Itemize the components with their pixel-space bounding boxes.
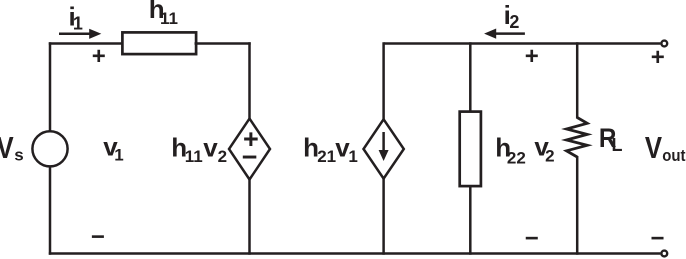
svg-text:1: 1 [73,14,83,34]
svg-text:1: 1 [348,147,357,166]
svg-text:L: L [612,135,623,155]
dependent voltage source h11v2 diamond [229,119,270,180]
wire: vertical below RL [576,156,579,255]
svg-text:s: s [14,145,23,164]
svg-text:−: − [91,224,105,251]
wire: vertical above RL [576,42,579,118]
svg-text:11: 11 [160,9,178,28]
wire: vertical below current source h21v1 [382,178,385,255]
svg-text:21: 21 [317,147,336,166]
svg-text:11: 11 [185,147,203,166]
wire: h11 to node at x=249.5 [195,42,251,45]
wire: bottom horizontal rail [49,252,661,255]
svg-text:2: 2 [545,146,554,165]
wire: top-right horizontal rail [384,42,661,45]
svg-text:+: + [651,44,665,71]
dependent current source h21v1 diamond [364,119,404,178]
svg-text:−: − [525,225,539,252]
wire: vertical above current source h21v1 [382,42,385,120]
svg-text:out: out [662,147,686,165]
wire: vertical above dependent source h11v2 [248,42,251,120]
resistor h22 (vertical box) [460,112,481,187]
svg-text:22: 22 [507,148,526,167]
svg-text:+: + [92,43,106,70]
svg-text:V: V [645,131,662,166]
wire: vertical above resistor h22 [469,42,472,113]
svg-text:v: v [203,132,218,162]
resistor h11 [122,32,196,54]
wire: left vertical upper (Vs top) [49,42,52,131]
svg-text:−: − [242,142,258,172]
wire: left vertical lower (Vs bottom) [49,167,52,255]
resistor RL zigzag [567,118,588,158]
wire: vertical below dependent source h11v2 [248,179,251,255]
svg-text:1: 1 [114,145,123,164]
svg-text:−: − [650,225,664,252]
source Vs circle [32,131,67,166]
svg-text:+: + [525,43,539,70]
wire: vertical below resistor h22 [469,185,472,255]
output terminal bottom (open circle) [661,251,667,257]
arrow i2 (current into port 2) [496,32,525,35]
wire: top-left horizontal (source to h11) [49,42,124,45]
output terminal top (open circle) [661,41,667,47]
svg-text:2: 2 [509,12,519,32]
arrow i1 (current into port 1) [59,33,91,36]
arrow inside h21v1 (downward) [382,132,385,152]
svg-text:2: 2 [218,147,227,166]
svg-text:V: V [0,131,14,166]
